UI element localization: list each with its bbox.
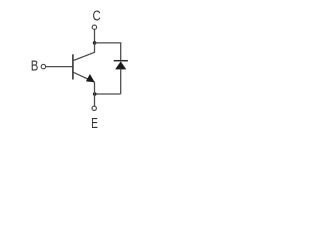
transistor Q1 emitter lead	[73, 72, 94, 82]
wire bottom horizontal to emitter junction	[95, 93, 121, 95]
diode D1 anode triangle	[115, 61, 126, 69]
wire collector terminal to junction	[94, 30, 96, 43]
diode D1 cathode bar	[114, 60, 128, 62]
transistor Q1 collector lead	[73, 43, 94, 61]
wire top horizontal to diode branch	[95, 42, 121, 44]
wire diode branch lower vertical	[120, 69, 122, 94]
svg-text:B: B	[31, 59, 39, 75]
wire base	[46, 66, 73, 68]
terminal C	[92, 25, 96, 29]
terminal B	[41, 64, 45, 68]
transistor Q1 emitter arrow	[86, 74, 95, 82]
terminal E	[92, 106, 96, 110]
junction emitter node	[93, 92, 97, 96]
svg-text:C: C	[93, 9, 101, 25]
transistor Q1 base bar	[72, 54, 74, 79]
junction collector node	[93, 41, 97, 45]
wire emitter vertical	[94, 82, 96, 106]
wire diode branch upper vertical	[120, 42, 122, 60]
svg-text:E: E	[91, 116, 98, 132]
